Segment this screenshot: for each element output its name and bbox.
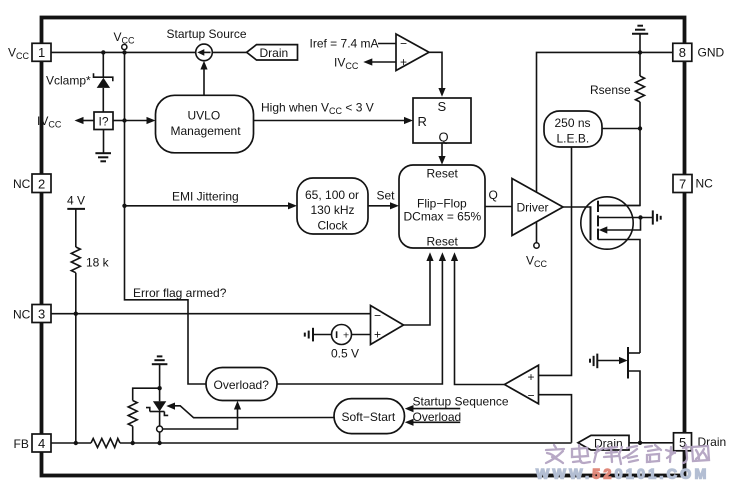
- svg-text:+: +: [400, 55, 407, 69]
- pin 7 NC box: [673, 175, 692, 193]
- LEB block 250ns: [544, 111, 602, 147]
- svg-text:R: R: [418, 114, 427, 129]
- ground symbol at GND pin: [632, 26, 648, 53]
- wire FB pin long bottom: [51, 442, 572, 444]
- wire LEB junction down to MOSFET drain: [598, 129, 640, 206]
- svg-text:GND: GND: [698, 46, 725, 60]
- power MOSFET channel bar dashed: [597, 201, 599, 240]
- svg-text:Reset: Reset: [427, 234, 459, 248]
- wire Iref label to comparator minus: [378, 43, 396, 45]
- svg-text:3: 3: [38, 307, 45, 322]
- zener reference diode at FB: [146, 388, 168, 426]
- wire pin3 NC to 0.5V comparator minus: [51, 313, 371, 315]
- sense MOSFET gate arrow: [597, 357, 627, 364]
- power MOSFET body arrow: [599, 218, 641, 234]
- node open circle FB reference: [157, 426, 163, 432]
- power MOSFET circle: [581, 197, 633, 249]
- svg-text:Reset: Reset: [427, 167, 459, 181]
- comparator 0.5V triangle: [371, 306, 404, 345]
- ground above FB zener: [152, 356, 168, 388]
- svg-text:DCmax = 65%: DCmax = 65%: [404, 209, 482, 223]
- svg-text:8: 8: [679, 45, 686, 60]
- wire startup source to Drain tag: [212, 51, 247, 53]
- svg-text:Q: Q: [489, 188, 498, 202]
- wire 0.5V source to comparator plus: [352, 334, 371, 336]
- pin 3 NC box: [32, 305, 51, 323]
- wire LEB bottom down to current comparator plus: [539, 147, 572, 375]
- resistor Rsense: [636, 52, 645, 128]
- node: dot at EMI branch: [122, 204, 126, 208]
- UVLO Management block: [156, 95, 254, 153]
- char dian: [572, 445, 590, 463]
- svg-text:Rsense: Rsense: [590, 83, 631, 97]
- svg-text:250 ns: 250 ns: [555, 116, 591, 130]
- svg-text:I?: I?: [99, 114, 109, 128]
- svg-text:FB: FB: [14, 437, 29, 451]
- power MOSFET source stub: [598, 240, 640, 354]
- node: junction dot VCC branch: [122, 50, 126, 54]
- pin 1 VCC box: [32, 43, 51, 61]
- arrow rail to UVLO: [125, 117, 156, 124]
- arrow latch Q down to flip-flop reset: [438, 143, 445, 165]
- wire+arrow UVLO to latch R: [254, 117, 414, 124]
- svg-text:+: +: [343, 329, 349, 341]
- svg-text:UVLO: UVLO: [188, 109, 221, 123]
- node driver VCC open circle: [534, 243, 539, 248]
- wire+arrow 0.5V comparator out to flip-flop reset: [404, 252, 434, 325]
- arrow startup sequence into soft-start: [405, 405, 460, 412]
- char jia: [546, 445, 564, 463]
- supply node 4V: [67, 193, 85, 247]
- wire divider branch left: [133, 388, 160, 400]
- node dot drain sense junction: [638, 441, 642, 445]
- Overload? bubble: [206, 368, 277, 401]
- svg-text:Soft−Start: Soft−Start: [342, 410, 396, 424]
- svg-text:Overload?: Overload?: [214, 378, 270, 392]
- svg-text:NC: NC: [13, 307, 31, 321]
- driver triangle: [512, 179, 563, 236]
- char zi: [645, 445, 661, 462]
- svg-text:Driver: Driver: [517, 200, 549, 214]
- svg-text:65, 100 or: 65, 100 or: [305, 188, 359, 202]
- Drain tag (bottom): [578, 435, 629, 450]
- svg-text:Error flag armed?: Error flag armed?: [133, 286, 227, 300]
- svg-text:−: −: [528, 389, 535, 403]
- battery symbol at 0.5V source: [305, 328, 332, 342]
- svg-text:S: S: [438, 99, 447, 114]
- power MOSFET gate wire: [563, 206, 591, 208]
- wire open circle down to FB wire: [159, 432, 161, 443]
- svg-text:7: 7: [679, 177, 686, 192]
- wire LEB to Rsense node: [602, 128, 640, 130]
- svg-text:4: 4: [38, 436, 45, 451]
- sense MOSFET source stub: [628, 371, 640, 443]
- svg-text:Q: Q: [439, 130, 449, 145]
- arrow overload into soft-start: [405, 419, 460, 426]
- pin 4 FB box: [32, 434, 51, 452]
- node dot GND junction: [638, 50, 642, 54]
- arrow IVCC from comparator plus: [334, 56, 396, 72]
- svg-text:Management: Management: [171, 124, 242, 138]
- char wang: [692, 446, 709, 461]
- node dot LEB junction: [638, 126, 642, 130]
- svg-text:1: 1: [38, 45, 45, 60]
- svg-text:NC: NC: [696, 177, 714, 191]
- svg-text:Drain: Drain: [260, 46, 289, 60]
- wire I? box to rail: [113, 120, 125, 122]
- svg-text:18 k: 18 k: [86, 256, 110, 270]
- zener diode Vclamp: [94, 52, 113, 112]
- wire: pin1 VCC to startup source: [51, 51, 196, 53]
- pin 2 NC box: [32, 174, 51, 193]
- resistor 18k: [71, 247, 80, 443]
- sideways ground at sense MOSFET gate: [590, 354, 597, 369]
- wire comparator minus input to drain sense: [539, 395, 572, 443]
- wire+arrow comparator out to flip-flop reset: [451, 252, 505, 384]
- char wei: [594, 446, 618, 462]
- svg-text:−: −: [374, 309, 381, 323]
- svg-text:Iref = 7.4 mA: Iref = 7.4 mA: [310, 37, 379, 51]
- sense MOSFET channel bar: [627, 347, 629, 379]
- wire+arrow EMI jitter to clock: [125, 202, 298, 209]
- wire drain tag to pin 5: [629, 442, 674, 444]
- wire GND rail top: [537, 52, 673, 192]
- svg-text:4 V: 4 V: [67, 193, 85, 207]
- comparator Iref: [396, 34, 429, 71]
- wire flip-flop Q to driver: [485, 206, 512, 208]
- resistor FB divider vertical: [128, 401, 137, 444]
- char xiu: [619, 446, 638, 464]
- svg-text:EMI Jittering: EMI Jittering: [172, 189, 239, 203]
- Drain tag (top): [247, 45, 298, 60]
- svg-text:2: 2: [38, 176, 45, 191]
- sense MOSFET drain stub: [628, 352, 640, 354]
- Soft-Start bubble: [334, 399, 405, 434]
- svg-text:+: +: [528, 370, 535, 384]
- pin 8 GND box: [673, 43, 692, 61]
- current sense comparator triangle: [505, 365, 539, 404]
- arrow IVCC out of I? box: [75, 117, 95, 124]
- svg-text:−: −: [400, 37, 407, 51]
- arrow soft-start to zener reference: [166, 403, 334, 418]
- svg-text:Startup Sequence: Startup Sequence: [413, 395, 509, 409]
- svg-text:+: +: [374, 328, 381, 342]
- arrow UVLO up to startup source: [200, 61, 207, 96]
- wire comparator out to latch S with arrow: [429, 52, 446, 97]
- svg-text:Set: Set: [377, 188, 396, 202]
- svg-text:130 kHz: 130 kHz: [311, 203, 355, 217]
- startup source circle: [196, 44, 213, 61]
- node: junction dot Vclamp branch: [101, 50, 105, 54]
- wire driver VCC stub: [536, 222, 538, 243]
- svg-text:High when VCC < 3 V: High when VCC < 3 V: [261, 101, 374, 117]
- svg-text:Vclamp*: Vclamp*: [46, 74, 91, 88]
- char liao: [666, 445, 689, 463]
- node: dot at IVCC branch: [122, 118, 126, 122]
- node dot pin3 and 18k rail: [74, 312, 78, 316]
- SR latch box: [413, 98, 471, 145]
- current monitor I? box: [94, 112, 113, 130]
- sideways ground at MOSFET body: [653, 210, 661, 224]
- ground below I? box: [95, 130, 111, 162]
- clock block 65/100/130 kHz: [297, 178, 368, 234]
- svg-text:Clock: Clock: [318, 219, 349, 233]
- svg-text:WWW.520101.COM: WWW.520101.COM: [536, 466, 710, 482]
- wire+arrow clock to flip-flop set: [368, 202, 399, 209]
- node dot FB divider top: [157, 386, 161, 390]
- node dots on FB wire: [74, 441, 162, 445]
- svg-text:Startup Source: Startup Source: [167, 27, 247, 41]
- voltage source 0.5V circle: [332, 325, 352, 345]
- node dot body junction: [638, 215, 642, 219]
- pin 5 Drain box: [674, 433, 692, 451]
- flip-flop block: [399, 165, 485, 248]
- svg-text:Flip−Flop: Flip−Flop: [417, 196, 467, 210]
- resistor FB series: [91, 439, 120, 448]
- wire: VCC vertical rail down: [125, 52, 207, 384]
- svg-text:0.5 V: 0.5 V: [331, 347, 359, 361]
- node VCC open terminal: [122, 44, 127, 49]
- power MOSFET body stub: [598, 217, 653, 219]
- power MOSFET gate bar: [590, 206, 592, 240]
- wire+arrow Overload? out to flip-flop reset: [277, 252, 446, 384]
- svg-text:NC: NC: [13, 177, 31, 191]
- svg-text:L.E.B.: L.E.B.: [557, 132, 590, 146]
- wire+arrow FB node to Overload? bubble: [163, 401, 242, 429]
- power MOSFET drain stub: [598, 205, 640, 207]
- watermark chinese characters (vector approximation): [546, 445, 709, 464]
